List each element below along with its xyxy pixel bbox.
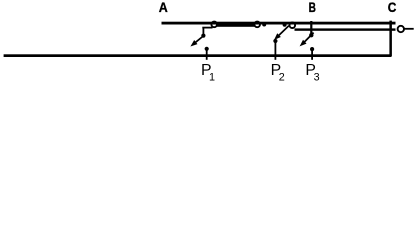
svg-text:2: 2 bbox=[279, 72, 285, 84]
svg-text:1: 1 bbox=[209, 72, 215, 84]
svg-text:C: C bbox=[388, 0, 397, 15]
svg-text:3: 3 bbox=[314, 72, 320, 84]
svg-text:B: B bbox=[309, 0, 316, 15]
svg-text:A: A bbox=[159, 0, 168, 15]
